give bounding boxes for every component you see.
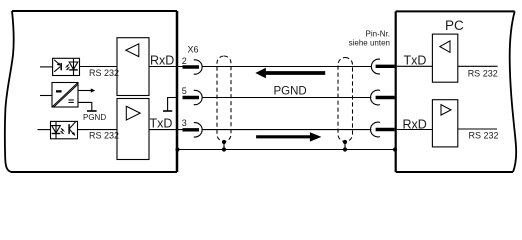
PC pin row3 male contact: [376, 128, 395, 131]
driver box upper (RxD): [117, 38, 149, 96]
PC pin row1 socket arc: [371, 59, 380, 74]
dc/dc diagonal: [52, 83, 78, 107]
PC pin row1 male contact: [376, 65, 395, 68]
cable wire row 3: [202, 129, 371, 131]
signal ground wire to pin 5: [168, 98, 177, 112]
wire optocoupler top to driver: [80, 66, 117, 68]
PC driver box lower (RxD): [432, 100, 457, 147]
optocoupler bottom light arrows: [61, 128, 66, 134]
connector shell right (dashed): [338, 58, 353, 142]
signal direction arrow left (PC to RxD): [255, 68, 325, 78]
dc/dc converter U-mid (box): [52, 83, 78, 108]
shield wire: [177, 149, 396, 151]
optocoupler top LED diode: [69, 59, 78, 76]
optocoupler top light arrows: [65, 65, 70, 71]
svg-text:TxD: TxD: [150, 116, 173, 130]
pin 5 socket arc: [194, 90, 202, 104]
junction dot shield at PC: [393, 147, 397, 151]
wire PC lower RS232: [458, 128, 497, 130]
svg-text:RxD: RxD: [150, 54, 174, 68]
PC enclosure box (torn right edge): [396, 11, 517, 172]
connector shell right shield stub: [344, 142, 346, 150]
junction dot shield at controller: [175, 147, 179, 151]
svg-text:TxD: TxD: [404, 53, 427, 67]
svg-text:RS 232: RS 232: [468, 68, 498, 78]
dc/dc equals sign: [69, 100, 74, 102]
wire PC upper RS232: [458, 65, 498, 67]
svg-text:PGND: PGND: [83, 113, 106, 122]
dc/dc ground bar: [87, 110, 97, 112]
triangle buffer right-pointing (lower driver): [126, 106, 140, 120]
triangle buffer right-pointing (PC lower): [441, 105, 451, 116]
optocoupler top (box): [53, 58, 80, 75]
signal direction arrow right (TxD to PC): [256, 132, 321, 141]
svg-text:RS 232: RS 232: [89, 130, 119, 140]
signal ground bar: [163, 110, 172, 112]
optocoupler bottom phototransistor: [69, 122, 75, 136]
junction dot shield at shell left: [222, 147, 226, 151]
driver box lower (TxD): [117, 99, 149, 160]
svg-text:3: 3: [182, 118, 187, 128]
optocoupler top phototransistor: [54, 60, 61, 72]
PC pin row2 male contact: [376, 96, 395, 99]
triangle buffer left-pointing (PC upper): [440, 41, 450, 53]
pin 2 male contact: [183, 65, 200, 68]
cable wire row 1: [202, 66, 371, 68]
wire input stub to optocoupler top: [40, 66, 53, 68]
controller enclosure box (torn left edge): [5, 11, 177, 172]
junction dot shell right top: [343, 140, 347, 144]
junction dot shell left top: [222, 140, 226, 144]
svg-text:PGND: PGND: [274, 85, 307, 97]
svg-text:RS 232: RS 232: [469, 130, 499, 140]
triangle buffer left-pointing (upper driver): [126, 44, 139, 57]
svg-text:RS 232: RS 232: [89, 68, 119, 78]
dc/dc output arrow: [78, 88, 95, 92]
wire input stub to dc/dc: [40, 95, 52, 97]
dc/dc ground wire: [78, 102, 92, 111]
connector shell left (dashed): [217, 56, 231, 142]
wire TxD into PC driver: [397, 65, 433, 67]
svg-text:5: 5: [182, 86, 187, 96]
dc/dc minus dash: [56, 90, 62, 92]
svg-text:siehe unten: siehe unten: [349, 39, 390, 48]
svg-text:Pin-Nr.: Pin-Nr.: [366, 29, 390, 38]
junction dot shield at shell right: [343, 147, 347, 151]
PC driver box upper (TxD): [432, 34, 457, 82]
wire RxD to pin 2: [149, 66, 199, 68]
pin 3 male contact: [183, 128, 200, 131]
pin 3 socket arc: [194, 123, 202, 137]
pin 5 male contact: [183, 96, 200, 99]
connector shell left shield stub: [223, 142, 225, 150]
PC pin row2 socket arc: [371, 90, 380, 105]
cable wire row 2: [202, 97, 371, 99]
svg-text:PC: PC: [445, 18, 464, 33]
wire input stub to optocoupler bottom: [38, 129, 51, 131]
PC pin row3 socket arc: [371, 122, 380, 137]
wire optocoupler bottom to driver: [78, 129, 117, 131]
optocoupler bottom LED diode: [52, 122, 61, 139]
svg-text:2: 2: [182, 56, 187, 66]
svg-text:X6: X6: [188, 45, 199, 55]
wire RxD into PC driver: [397, 129, 433, 131]
optocoupler bottom (box): [51, 121, 78, 138]
wire TxD to pin 3: [149, 129, 199, 131]
pin 2 socket arc: [194, 60, 202, 74]
